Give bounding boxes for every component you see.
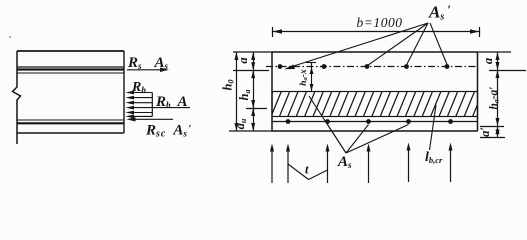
svg-text:t: t [305,163,309,177]
svg-text:RscAs′: RscAs′ [145,123,191,140]
svg-text:As′: As′ [428,2,451,23]
svg-text:au: au [233,118,248,129]
svg-text:b=1000: b=1000 [357,15,403,30]
svg-text:As: As [337,154,352,170]
svg-text:Rb: Rb [131,80,146,95]
svg-text:a′: a′ [478,127,492,137]
svg-text:ha-x: ha-x [299,69,309,86]
svg-text:a: a [481,58,495,64]
svg-text:RsAs: RsAs [127,55,169,71]
svg-text:h0: h0 [221,80,236,91]
svg-text:lb,cr: lb,cr [425,150,443,165]
svg-text:a: a [236,57,250,63]
svg-text:ha-a′: ha-a′ [488,87,501,110]
svg-text:ha: ha [237,90,252,101]
